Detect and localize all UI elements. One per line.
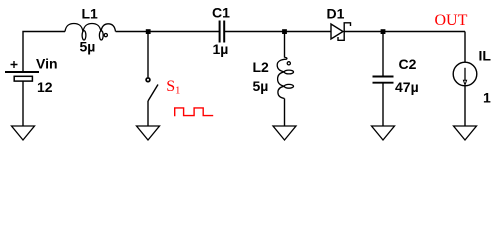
node A junction	[146, 29, 151, 34]
inductor L1	[65, 24, 116, 41]
wire L1 to C1	[116, 31, 219, 33]
wire D1 to OUT corner	[344, 31, 465, 33]
ground (L2)	[273, 126, 296, 140]
svg-text:C2: C2	[399, 56, 417, 72]
ground (Vin)	[12, 126, 35, 140]
wire battery to top rail	[23, 32, 65, 72]
svg-text:D1: D1	[327, 6, 345, 22]
svg-text:OUT: OUT	[435, 12, 468, 29]
wire node C down to C2	[382, 32, 384, 77]
gate drive waveform	[175, 108, 214, 116]
ground (IL)	[454, 126, 477, 140]
wire C2 bottom	[382, 84, 384, 127]
svg-text:1: 1	[483, 90, 491, 106]
svg-text:Vin: Vin	[36, 56, 58, 72]
svg-text:S: S	[166, 78, 175, 95]
svg-text:12: 12	[37, 79, 53, 95]
voltage source Vin	[5, 61, 39, 81]
svg-text:47µ: 47µ	[395, 79, 419, 95]
svg-text:L2: L2	[253, 59, 270, 75]
svg-text:5µ: 5µ	[80, 38, 96, 54]
svg-text:C1: C1	[212, 5, 230, 21]
svg-text:5µ: 5µ	[253, 78, 269, 94]
switch S1	[146, 32, 158, 127]
current source IL	[453, 62, 477, 86]
node B junction	[282, 29, 287, 34]
wire IL bottom	[464, 86, 466, 126]
wire L2 bottom	[284, 99, 286, 127]
diode D1	[331, 23, 351, 41]
svg-text:L1: L1	[82, 6, 99, 22]
wire battery bottom	[22, 81, 24, 126]
ground (C2)	[372, 126, 395, 140]
node C junction	[381, 29, 386, 34]
inductor L2	[277, 57, 293, 98]
wire C1 to D1	[225, 31, 331, 33]
svg-text:1µ: 1µ	[213, 41, 229, 57]
ground (S1)	[137, 126, 160, 140]
wire node B down to L2	[284, 32, 286, 58]
capacitor C1	[220, 21, 225, 43]
svg-text:IL: IL	[479, 47, 492, 63]
svg-text:1: 1	[175, 86, 180, 97]
capacitor C2	[373, 77, 394, 83]
wire OUT corner down to IL	[464, 32, 466, 63]
